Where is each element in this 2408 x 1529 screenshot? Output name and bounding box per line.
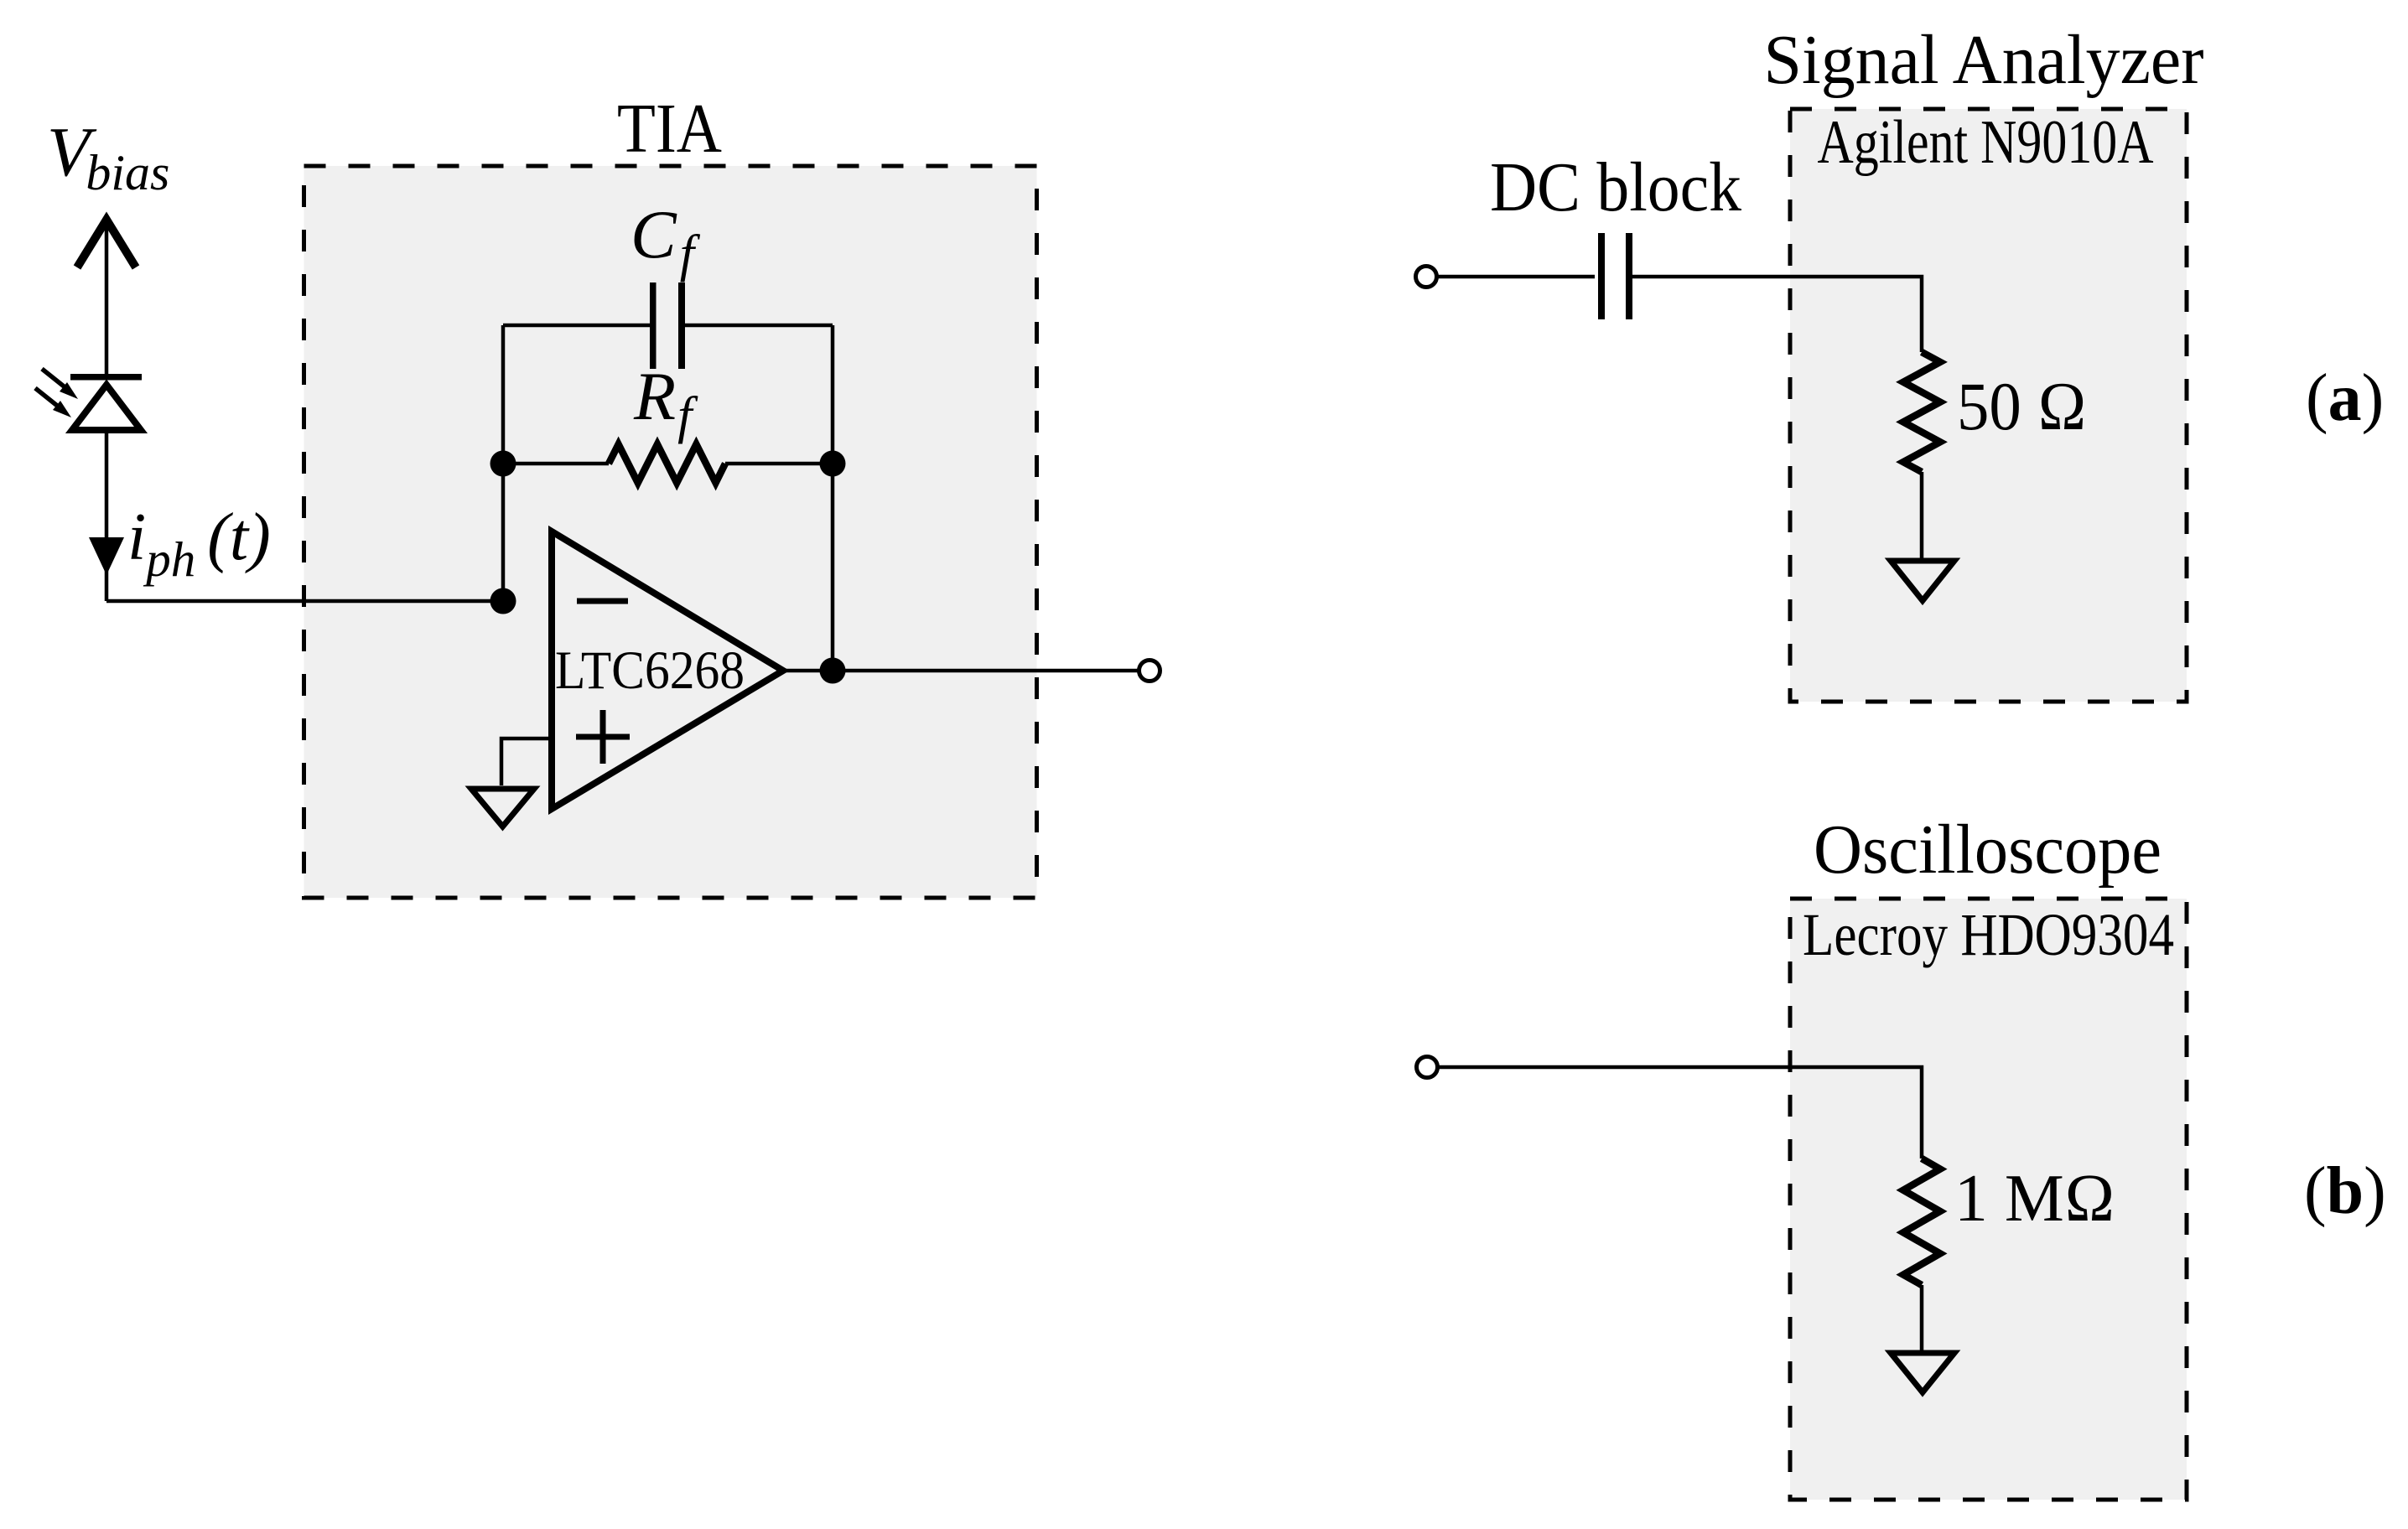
wire terminal to oscilloscope (1438, 1067, 1922, 1158)
svg-text:1 MΩ: 1 MΩ (1954, 1160, 2115, 1236)
output wire (783, 669, 1139, 673)
svg-text:TIA: TIA (617, 90, 722, 168)
svg-text:Lecroy HDO9304: Lecroy HDO9304 (1803, 901, 2174, 968)
wire to inverting input (106, 599, 503, 604)
output terminal (1139, 661, 1160, 682)
svg-text:Signal Analyzer: Signal Analyzer (1764, 21, 2204, 99)
svg-text:LTC6268: LTC6268 (555, 640, 745, 701)
resistor Rf (503, 444, 833, 483)
svg-text:Agilent N9010A: Agilent N9010A (1818, 108, 2154, 177)
wire DC block to analyzer (1632, 277, 1922, 352)
light arrow 2 (35, 388, 71, 417)
wire noninverting input (501, 739, 552, 785)
wire loop left vertical (501, 325, 506, 601)
Oscilloscope enclosure (1790, 899, 2187, 1500)
input terminal (a) (1416, 267, 1437, 288)
Signal Analyzer enclosure (1790, 109, 2187, 702)
svg-text:50 Ω: 50 Ω (1957, 368, 2087, 444)
op-amp U1 (552, 531, 783, 809)
capacitor Cf (503, 282, 833, 369)
svg-text:(a): (a) (2306, 361, 2384, 435)
wire resistor to ground (a) (1920, 472, 1924, 558)
TIA enclosure (304, 166, 1037, 898)
capacitor DC block (1598, 233, 1632, 319)
wire terminal to DC block (1437, 275, 1595, 279)
photodiode D1 (35, 369, 142, 430)
svg-text:DC block: DC block (1490, 148, 1741, 226)
current arrow i_ph (89, 537, 124, 575)
svg-text:(b): (b) (2304, 1154, 2386, 1228)
wire resistor to ground (b) (1920, 1285, 1924, 1350)
node (Rf-Cf left junction) (490, 451, 516, 477)
node (inverting input junction) (490, 588, 516, 614)
wire loop right vertical (831, 325, 835, 671)
wire photodiode to corner (105, 431, 109, 601)
input terminal (b) (1417, 1057, 1438, 1078)
ground (op-amp noninverting) (471, 789, 534, 827)
resistor 1Mohm (1903, 1158, 1940, 1285)
node (Rf-Cf right junction) (820, 451, 846, 477)
node (output junction) (820, 658, 846, 684)
Vbias arrow (77, 219, 136, 374)
svg-text:Oscilloscope: Oscilloscope (1814, 811, 2161, 889)
ground (a) (1891, 561, 1954, 601)
light arrow 1 (42, 369, 78, 399)
ground (b) (1891, 1353, 1954, 1392)
resistor 50ohm (1903, 352, 1940, 472)
